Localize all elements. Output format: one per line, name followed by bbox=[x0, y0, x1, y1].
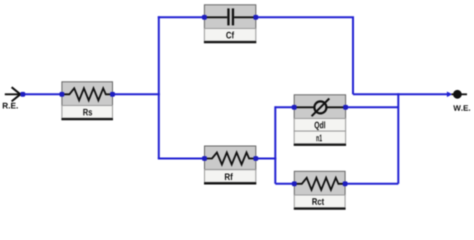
node Qdl right bbox=[343, 105, 348, 110]
wire bbox=[397, 93, 399, 184]
wire bbox=[23, 93, 62, 95]
node Rf right bbox=[253, 156, 258, 161]
wire bbox=[353, 93, 448, 95]
wire bbox=[275, 183, 294, 185]
wire bbox=[256, 16, 354, 18]
wire bbox=[158, 158, 205, 160]
node Cf right bbox=[253, 15, 258, 20]
terminal W.E. bbox=[447, 90, 470, 111]
wire bbox=[158, 16, 205, 18]
wire bbox=[275, 106, 294, 108]
node Qdl left bbox=[292, 105, 297, 110]
node at R.E. bbox=[20, 92, 25, 97]
terminal R.E. bbox=[3, 87, 21, 108]
capacitor Cf bbox=[204, 5, 256, 42]
resistor Rf bbox=[204, 146, 256, 183]
resistor Rct bbox=[294, 171, 346, 208]
wire bbox=[113, 93, 160, 95]
wire bbox=[352, 17, 354, 94]
wire bbox=[158, 16, 160, 158]
wire bbox=[345, 183, 398, 185]
node Rct right bbox=[343, 181, 348, 186]
CPE Qdl bbox=[294, 95, 346, 145]
resistor Rs bbox=[61, 82, 113, 119]
wire bbox=[274, 106, 276, 184]
node Rs right bbox=[110, 92, 115, 97]
node Rct left bbox=[292, 181, 297, 186]
node Cf left bbox=[202, 15, 207, 20]
node Rf left bbox=[202, 156, 207, 161]
node Rs left bbox=[60, 92, 65, 97]
wire bbox=[256, 158, 276, 160]
wire bbox=[346, 106, 399, 108]
